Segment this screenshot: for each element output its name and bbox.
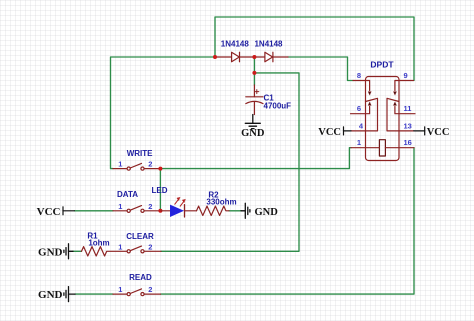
relay pin 1 bbox=[351, 147, 379, 149]
wire GND to READ switch bbox=[75, 293, 113, 295]
switch S1 WRITE bbox=[113, 163, 160, 170]
wire WRITE branch up-left to diode anode junction bbox=[111, 57, 216, 169]
wire R2 to GND bbox=[229, 210, 241, 212]
svg-text:GND: GND bbox=[38, 246, 63, 258]
relay pin 11 bbox=[393, 102, 415, 114]
svg-text:4700uF: 4700uF bbox=[264, 101, 292, 110]
svg-text:6: 6 bbox=[357, 104, 361, 113]
wire READ pin2 to relay coil pin 16 bbox=[161, 148, 415, 294]
svg-text:4: 4 bbox=[359, 121, 364, 130]
svg-text:2: 2 bbox=[148, 160, 152, 169]
junction node: capacitor tap bbox=[252, 71, 256, 75]
wire from mid junction right and down to CLEAR row bbox=[161, 73, 299, 251]
svg-text:2: 2 bbox=[148, 202, 152, 211]
svg-text:VCC: VCC bbox=[318, 127, 341, 138]
svg-text:1: 1 bbox=[357, 138, 361, 147]
svg-text:330ohm: 330ohm bbox=[206, 197, 236, 206]
switch S4 READ bbox=[113, 289, 161, 296]
wire WRITE pin2 to relay coil pin 1 bbox=[160, 148, 351, 169]
svg-text:GND: GND bbox=[241, 128, 265, 139]
wire GND to R1 bbox=[73, 250, 82, 252]
svg-text:2: 2 bbox=[148, 242, 152, 251]
relay right lever / pin 13 path bbox=[387, 98, 414, 131]
svg-text:2: 2 bbox=[148, 285, 152, 294]
svg-text:8: 8 bbox=[357, 71, 361, 80]
relay U1 DPDT body bbox=[366, 77, 400, 161]
svg-text:DPDT: DPDT bbox=[370, 60, 394, 70]
junction node: diode anode / top wire / WRITE wire bbox=[213, 55, 217, 59]
VCC flag at relay pin 4 bbox=[344, 127, 352, 135]
svg-text:1N4148: 1N4148 bbox=[221, 40, 250, 49]
svg-text:1: 1 bbox=[118, 242, 122, 251]
wire VCC to DATA switch bbox=[74, 210, 113, 212]
switch S2 DATA bbox=[113, 206, 160, 213]
ground flag right of R2 bbox=[241, 203, 250, 218]
wire diode cathode to relay pin 8 bbox=[288, 57, 353, 81]
resistor R1 1ohm bbox=[82, 247, 128, 256]
svg-text:CLEAR: CLEAR bbox=[126, 232, 154, 241]
svg-text:13: 13 bbox=[404, 121, 412, 130]
svg-text:1N4148: 1N4148 bbox=[254, 40, 283, 49]
svg-text:1: 1 bbox=[118, 160, 122, 169]
svg-text:READ: READ bbox=[129, 273, 152, 282]
svg-text:DATA: DATA bbox=[117, 190, 138, 199]
svg-text:VCC: VCC bbox=[37, 206, 61, 218]
relay pin 8 bbox=[353, 81, 371, 96]
wire WRITE junction down to DATA junction bbox=[159, 169, 161, 211]
switch S3 CLEAR bbox=[127, 246, 161, 253]
relay left lever / pin 4 path bbox=[351, 98, 378, 131]
diode D2 1N4148 bbox=[254, 52, 288, 62]
svg-text:9: 9 bbox=[404, 71, 408, 80]
wire mid junction down to capacitor bbox=[253, 73, 255, 85]
svg-text:1: 1 bbox=[118, 285, 122, 294]
svg-text:GND: GND bbox=[255, 207, 279, 218]
relay pin 16 bbox=[385, 147, 414, 149]
junction node: WRITE pin2 bbox=[158, 167, 162, 171]
junction node: DATA pin2 / LED anode bbox=[158, 209, 162, 213]
relay pin 9 bbox=[393, 81, 413, 96]
ground flag at READ row bbox=[64, 287, 75, 302]
svg-text:LED: LED bbox=[152, 186, 168, 195]
svg-text:1ohm: 1ohm bbox=[88, 238, 109, 247]
wire top loop from diode anode to relay pin 9 bbox=[215, 17, 414, 81]
ground under C1 bbox=[245, 115, 260, 129]
resistor R2 330ohm bbox=[185, 210, 197, 212]
svg-text:11: 11 bbox=[404, 104, 412, 113]
capacitor C1 4700uF polarized bbox=[246, 85, 263, 115]
junction node: between diodes bbox=[252, 55, 256, 59]
svg-text:GND: GND bbox=[38, 289, 63, 301]
VCC flag at relay pin 13 bbox=[414, 127, 425, 135]
wire diode mid junction down bbox=[253, 57, 255, 73]
svg-text:VCC: VCC bbox=[427, 127, 450, 138]
ground flag at CLEAR row bbox=[64, 244, 73, 259]
diode D1 1N4148 bbox=[215, 52, 254, 62]
svg-text:WRITE: WRITE bbox=[127, 149, 153, 158]
relay coil bbox=[379, 140, 385, 156]
LED D3 bbox=[161, 210, 170, 212]
svg-text:16: 16 bbox=[404, 138, 412, 147]
relay pin 6 bbox=[351, 102, 372, 114]
VCC flag at DATA row bbox=[63, 207, 74, 215]
svg-text:1: 1 bbox=[118, 202, 122, 211]
